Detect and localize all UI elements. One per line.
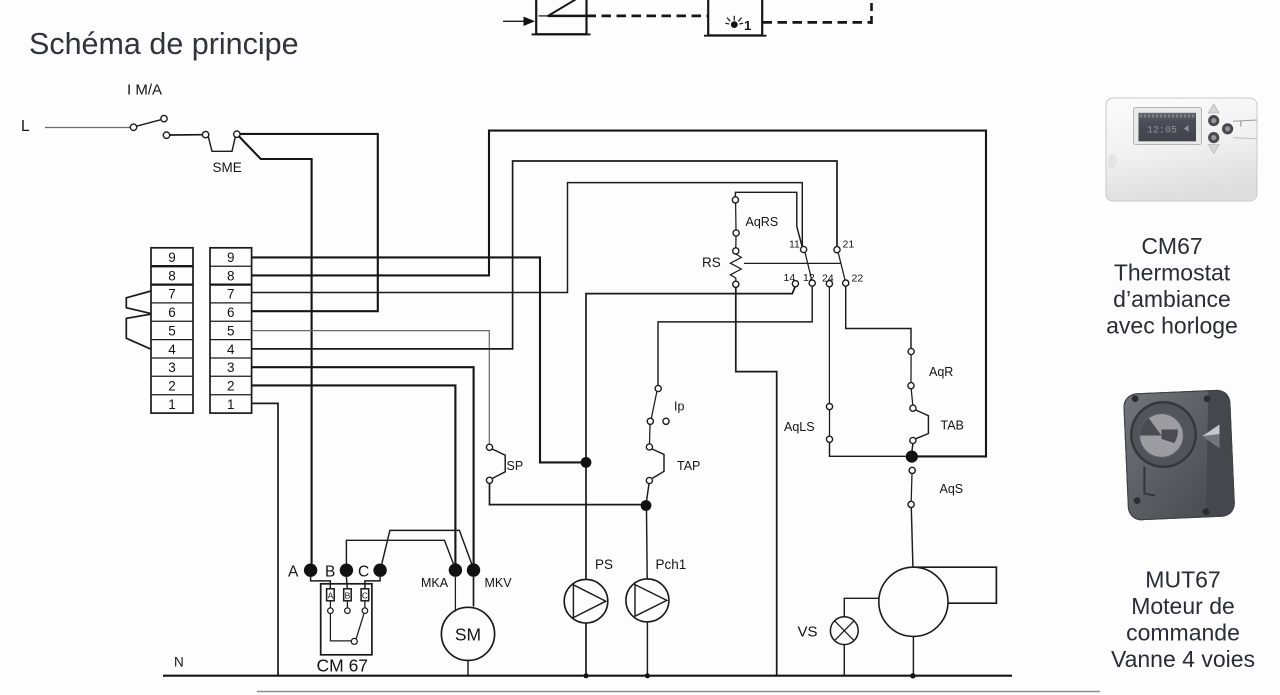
wire A into CM67 bbox=[311, 577, 331, 589]
wire from L bbox=[45, 127, 130, 129]
contact TAP bbox=[646, 444, 700, 484]
contact 24 bbox=[822, 273, 834, 287]
svg-text:AqS: AqS bbox=[940, 482, 964, 496]
switch SME bbox=[163, 131, 241, 175]
svg-text:8: 8 bbox=[168, 268, 176, 283]
wire VS top to valve bbox=[844, 598, 879, 617]
wire RS bottom to N bus bbox=[736, 287, 777, 675]
lamp VS bbox=[798, 617, 859, 645]
contact 12 bbox=[803, 272, 815, 286]
contact SP bbox=[486, 444, 523, 483]
svg-text:C: C bbox=[358, 564, 369, 581]
svg-text:A: A bbox=[288, 564, 299, 581]
svg-text:6: 6 bbox=[168, 305, 176, 320]
pump Pch1 bbox=[626, 557, 686, 676]
svg-text:PS: PS bbox=[595, 557, 613, 572]
svg-text:I M/A: I M/A bbox=[127, 82, 162, 99]
thermostat CM67 box bbox=[317, 584, 372, 676]
svg-text:RS: RS bbox=[702, 255, 721, 270]
switch I M/A bbox=[127, 82, 167, 131]
wire B into CM67 bbox=[345, 577, 348, 589]
svg-text:22: 22 bbox=[852, 273, 864, 285]
wire RS to blade 21-22 bbox=[744, 262, 841, 264]
blade 11-12 bbox=[805, 252, 812, 279]
top partial flow diagram: input arrow bbox=[503, 17, 535, 26]
svg-text:7: 7 bbox=[168, 287, 176, 302]
wire MKV to motor SM bbox=[473, 577, 475, 607]
wire PS column up to contact 14 bbox=[586, 287, 795, 579]
valve loop wire bbox=[913, 567, 996, 603]
svg-text:AqLS: AqLS bbox=[784, 420, 815, 434]
svg-text:Ip: Ip bbox=[674, 400, 684, 414]
svg-text:7: 7 bbox=[227, 287, 235, 302]
wire terminal 7 via rail to contact 11 bbox=[252, 183, 803, 293]
svg-text:L: L bbox=[21, 118, 30, 135]
contact AqR bbox=[908, 348, 953, 388]
terminal block left (9..1) bbox=[151, 248, 193, 413]
svg-text:B: B bbox=[345, 591, 351, 601]
wire terminal 2 to MKA bbox=[252, 385, 456, 563]
svg-text:4: 4 bbox=[168, 342, 176, 357]
wire AqRS top to contact 11 bbox=[735, 192, 802, 246]
CM67 blade C to common bbox=[356, 613, 364, 638]
caption MUT67 bbox=[1111, 567, 1255, 673]
CM67 terminal A bbox=[327, 589, 335, 614]
CM67 common contact bbox=[351, 638, 357, 644]
contact AqRS bbox=[732, 197, 778, 236]
svg-text:AqR: AqR bbox=[929, 365, 953, 379]
wire AqR to TAB bbox=[911, 389, 913, 405]
svg-text:SME: SME bbox=[213, 160, 242, 175]
dashed link wire bbox=[587, 14, 709, 17]
svg-text:C: C bbox=[362, 591, 368, 601]
node valve-bus bbox=[910, 673, 915, 678]
wire AqLS to junction bbox=[830, 442, 906, 456]
contact 11 bbox=[789, 239, 807, 253]
CM67 internal wire A to common bbox=[330, 614, 351, 641]
wire Pch1 node down bbox=[646, 511, 649, 579]
svg-text:B: B bbox=[325, 564, 335, 581]
wire AqRS to RS bbox=[735, 236, 737, 248]
terminal block right (9..1) bbox=[210, 248, 252, 413]
contact Ip bbox=[647, 385, 684, 424]
svg-text:5: 5 bbox=[227, 323, 235, 338]
contact AqLS bbox=[784, 404, 833, 443]
node A bbox=[288, 564, 317, 581]
CM67 terminal C bbox=[361, 589, 369, 614]
svg-text:CM67: CM67 bbox=[1141, 233, 1202, 259]
node PS feed (junction dot) bbox=[581, 457, 592, 468]
wire SM to bus bbox=[467, 661, 469, 676]
wire terminal 5 to SP bbox=[252, 331, 489, 445]
wire Ip to TAP bbox=[649, 424, 652, 444]
svg-text:CM 67: CM 67 bbox=[317, 656, 369, 676]
node C bbox=[358, 564, 387, 581]
svg-text:SM: SM bbox=[455, 625, 481, 645]
motor SM bbox=[441, 607, 494, 660]
wire valve to bus bbox=[912, 636, 914, 675]
wire B to MKA bbox=[346, 540, 453, 564]
valve motor circle bbox=[879, 567, 948, 636]
svg-text:6: 6 bbox=[227, 305, 235, 320]
photo: MUT67 valve actuator bbox=[1123, 390, 1234, 521]
svg-text:1: 1 bbox=[168, 397, 176, 412]
svg-text:d’ambiance: d’ambiance bbox=[1113, 286, 1231, 312]
wire terminal 4 via rail to contact 21 bbox=[252, 161, 837, 349]
svg-text:VS: VS bbox=[798, 624, 818, 641]
contact 14 bbox=[784, 272, 799, 287]
svg-text:1: 1 bbox=[227, 397, 235, 412]
wire C into CM67 bbox=[365, 577, 380, 589]
photo: CM67 thermostat bbox=[1106, 98, 1257, 201]
svg-text:3: 3 bbox=[168, 360, 176, 375]
wire terminal 9 to PS node bbox=[252, 257, 581, 462]
caption CM67 bbox=[1106, 233, 1238, 339]
svg-text:2: 2 bbox=[168, 379, 176, 394]
N bus bbox=[163, 675, 1012, 677]
wire SME lower branch down to node A bbox=[239, 136, 312, 563]
wire MKA to motor SM bbox=[454, 577, 456, 612]
node MKA bbox=[421, 563, 462, 590]
bottom page edge line bbox=[257, 691, 1100, 693]
jumper terminals 7-6 bbox=[126, 291, 151, 313]
pump PS bbox=[564, 557, 613, 676]
svg-text:9: 9 bbox=[227, 250, 235, 265]
svg-text:avec horloge: avec horloge bbox=[1106, 313, 1238, 339]
wire contact 24 to AqLS bbox=[828, 287, 830, 404]
svg-text:11: 11 bbox=[789, 239, 800, 251]
node MKV bbox=[467, 563, 512, 590]
svg-text:SP: SP bbox=[507, 459, 524, 473]
svg-text:8: 8 bbox=[227, 268, 235, 283]
svg-text:AqRS: AqRS bbox=[746, 215, 779, 229]
svg-text:MUT67: MUT67 bbox=[1145, 567, 1220, 593]
wire contact 12 to Ip bbox=[658, 286, 812, 385]
wire TAB to junction bbox=[911, 444, 914, 451]
node TAB junction bbox=[906, 451, 918, 463]
node Pch1-bus bbox=[645, 673, 650, 678]
svg-text:MKA: MKA bbox=[421, 576, 449, 590]
resistor RS bbox=[702, 248, 741, 288]
svg-text:Pch1: Pch1 bbox=[656, 557, 687, 572]
svg-text:4: 4 bbox=[227, 342, 235, 357]
svg-text:1: 1 bbox=[744, 18, 751, 33]
contact 22 bbox=[843, 273, 864, 287]
svg-text:9: 9 bbox=[168, 250, 176, 265]
svg-text:Moteur de: Moteur de bbox=[1131, 593, 1235, 619]
svg-text:TAB: TAB bbox=[941, 419, 964, 433]
wire TAP to Pch1 node bbox=[647, 484, 649, 501]
top box ramp symbol bbox=[532, 0, 591, 34]
top box lamp 1 bbox=[704, 0, 767, 36]
svg-text:12:05: 12:05 bbox=[1147, 126, 1177, 137]
svg-text:Thermostat: Thermostat bbox=[1114, 260, 1231, 286]
dashed wire to top right bbox=[763, 0, 872, 24]
svg-text:21: 21 bbox=[843, 239, 855, 251]
svg-text:3: 3 bbox=[227, 360, 235, 375]
svg-text:Vanne 4 voies: Vanne 4 voies bbox=[1111, 646, 1255, 672]
svg-text:commande: commande bbox=[1126, 620, 1240, 646]
wire terminal 8 via top rail to right junction bbox=[252, 131, 986, 457]
svg-text:N: N bbox=[174, 655, 184, 670]
jumper terminals 6-4 bbox=[126, 314, 151, 349]
node PS-bus bbox=[584, 673, 589, 678]
contact TAB bbox=[910, 405, 964, 444]
wire AqS to valve motor bbox=[911, 508, 913, 567]
wire VS bottom to bus bbox=[843, 645, 845, 676]
wire SP bottom to Pch1 node bbox=[490, 483, 641, 504]
wire terminal 3 to MKV bbox=[252, 367, 474, 563]
svg-text:5: 5 bbox=[168, 323, 176, 338]
wire SME top branch to terminal 6 bbox=[240, 134, 378, 311]
node Pch1 feed (junction dot) bbox=[641, 500, 652, 511]
contact AqS bbox=[908, 467, 963, 507]
svg-text:MKV: MKV bbox=[485, 576, 513, 590]
contact 21 bbox=[834, 239, 854, 253]
blade 21-22 bbox=[838, 253, 845, 280]
wire C to MKV bbox=[382, 530, 472, 564]
svg-text:2: 2 bbox=[227, 379, 235, 394]
svg-text:Schéma de principe: Schéma de principe bbox=[29, 27, 299, 61]
svg-text:A: A bbox=[328, 591, 334, 601]
svg-text:TAP: TAP bbox=[677, 459, 700, 473]
wire terminal 1 to N bus bbox=[252, 403, 278, 675]
CM67 terminal B bbox=[344, 589, 352, 614]
node B bbox=[325, 564, 353, 581]
wire contact 22 to AqR bbox=[846, 286, 911, 348]
